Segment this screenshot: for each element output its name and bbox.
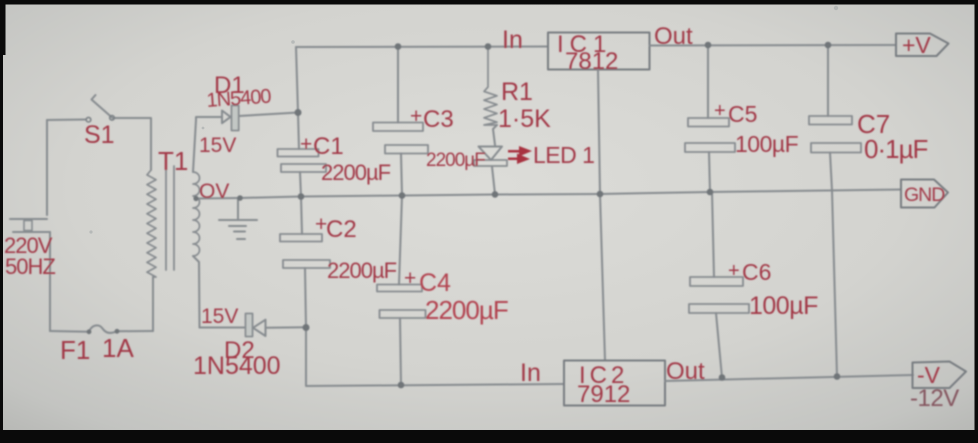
svg-text:15V: 15V <box>199 134 236 157</box>
svg-text:7812: 7812 <box>565 48 618 75</box>
svg-text:C1: C1 <box>313 133 344 160</box>
svg-text:-12V: -12V <box>910 385 959 412</box>
svg-text:Out: Out <box>654 23 693 50</box>
svg-text:+: + <box>728 260 740 282</box>
svg-text:GND: GND <box>904 184 945 206</box>
svg-text:1N5400: 1N5400 <box>193 352 281 380</box>
svg-text:T1: T1 <box>158 146 188 176</box>
svg-text:7912: 7912 <box>577 381 630 408</box>
svg-text:+: + <box>404 267 416 290</box>
svg-text:15V: 15V <box>201 305 238 328</box>
svg-text:100µF: 100µF <box>749 292 818 320</box>
svg-text:C6: C6 <box>742 259 771 285</box>
svg-text:C3: C3 <box>423 106 454 133</box>
svg-text:In: In <box>520 359 541 387</box>
svg-text:LED 1: LED 1 <box>533 142 594 168</box>
svg-text:C4: C4 <box>419 269 451 297</box>
svg-text:1A: 1A <box>102 333 134 363</box>
svg-text:R1: R1 <box>501 78 533 106</box>
svg-text:C5: C5 <box>728 101 757 127</box>
svg-text:2200µF: 2200µF <box>327 258 397 283</box>
svg-text:C2: C2 <box>326 216 357 243</box>
svg-text:2200µF: 2200µF <box>426 150 485 171</box>
svg-text:1N5400: 1N5400 <box>206 86 272 112</box>
svg-text:S1: S1 <box>84 121 115 149</box>
svg-text:2200µF: 2200µF <box>425 295 508 325</box>
svg-text:+: + <box>410 105 422 128</box>
svg-text:2200µF: 2200µF <box>321 160 391 185</box>
svg-text:+: + <box>714 100 726 122</box>
svg-text:1·5K: 1·5K <box>498 105 551 133</box>
svg-text:In: In <box>502 26 523 54</box>
svg-text:F1: F1 <box>60 335 90 365</box>
svg-text:Out: Out <box>666 358 705 385</box>
svg-text:+V: +V <box>902 32 931 58</box>
svg-text:50HZ: 50HZ <box>5 254 55 279</box>
svg-text:OV: OV <box>199 180 229 203</box>
svg-text:100µF: 100µF <box>735 131 799 157</box>
svg-text:+: + <box>300 133 312 156</box>
svg-text:0·1µF: 0·1µF <box>864 134 928 164</box>
